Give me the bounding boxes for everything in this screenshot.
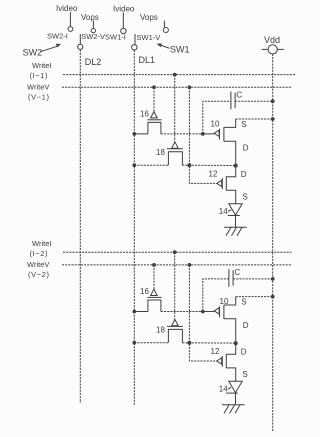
- transistor 18 channel: [168, 329, 182, 342]
- terminal SW2-I contact: [68, 27, 73, 32]
- svg-text:DL2: DL2: [85, 57, 102, 67]
- wire source of 10 to Vdd bus: [236, 118, 273, 120]
- ground hatch 2: [232, 227, 237, 236]
- svg-text:(V−2): (V−2): [28, 270, 50, 279]
- wire capacitor to Vdd bus: [235, 100, 273, 102]
- ground bar: [224, 226, 247, 228]
- wire Vops lead: [92, 21, 94, 29]
- wire WriteV row line: [62, 86, 292, 88]
- switch SW1 blade: [134, 34, 136, 45]
- wire DL1 to source of 18: [134, 342, 168, 344]
- svg-text:C: C: [236, 91, 242, 100]
- ground bar: [222, 404, 245, 406]
- transistor 16 gate bar: [147, 296, 161, 298]
- svg-text:S: S: [241, 297, 246, 306]
- wire drain of 16 to gate node: [161, 311, 203, 313]
- wire DL1 to source of 18: [134, 164, 168, 166]
- ground hatch 3: [237, 227, 242, 236]
- transistor 18 gate bar: [167, 148, 183, 150]
- junction gate-12 wire on WriteV: [188, 263, 192, 267]
- transistor 10 source lead: [224, 119, 236, 127]
- junction gate-18 on WriteI: [173, 73, 177, 77]
- wire Vdd bus: [272, 54, 274, 432]
- wire Ivideo lead: [69, 12, 71, 26]
- wire capacitor to Vdd bus: [233, 278, 273, 280]
- svg-text:14: 14: [219, 385, 228, 394]
- wire Ivideo lead: [122, 13, 124, 29]
- svg-text:12: 12: [211, 347, 220, 356]
- wire WriteI row line: [63, 74, 295, 76]
- LED 14 cathode bar: [226, 392, 238, 394]
- svg-text:16: 16: [140, 287, 149, 296]
- junction source wire on Vdd bus: [271, 295, 275, 299]
- transistor 12 drain lead: [226, 343, 235, 354]
- LED 14 triangle: [229, 381, 242, 392]
- transistor 10 channel: [223, 127, 225, 141]
- Vdd terminal right tick: [277, 48, 284, 50]
- svg-text:WriteV: WriteV: [27, 83, 49, 92]
- wire WriteV to gate of 12: [189, 265, 217, 361]
- svg-text:16: 16: [140, 109, 149, 118]
- transistor 12 source lead: [226, 190, 235, 203]
- svg-text:Vdd: Vdd: [264, 35, 280, 45]
- svg-text:WriteI: WriteI: [32, 61, 51, 70]
- junction node on 18 drain wire: [187, 341, 191, 345]
- wire gate node to capacitor: [203, 279, 229, 312]
- wire gate lead of transistor 18: [174, 252, 176, 319]
- transistor 10 gate bar: [219, 129, 221, 140]
- junction gate-12 wire on WriteV: [188, 85, 192, 89]
- wire WriteV row line: [62, 264, 292, 266]
- wire gate node to gate of 10: [203, 133, 215, 135]
- LED 14 triangle: [229, 204, 242, 215]
- svg-text:S: S: [242, 370, 247, 379]
- wire drain of 18 to node D: [182, 164, 235, 166]
- SW2 pointer arrowhead: [56, 44, 61, 48]
- transistor 12 drain lead: [226, 166, 235, 177]
- svg-text:SW2: SW2: [23, 48, 43, 58]
- transistor 18 gate contact: [172, 320, 179, 326]
- capacitor C right plate: [234, 93, 236, 109]
- svg-text:D: D: [243, 321, 249, 330]
- ground hatch 1: [224, 405, 229, 414]
- transistor 16 channel: [148, 122, 161, 133]
- wire data line DL1 bus: [133, 50, 135, 406]
- transistor 16 gate contact: [151, 112, 158, 118]
- wire gate lead of transistor 16: [153, 265, 155, 289]
- capacitor C left plate: [230, 92, 232, 110]
- transistor 16 gate bar: [147, 119, 161, 121]
- svg-text:Vops: Vops: [81, 13, 99, 22]
- junction gate node of 10: [201, 132, 205, 136]
- junction node D: [234, 341, 238, 345]
- switch SW2 pole: [78, 44, 83, 49]
- svg-text:SW1-V: SW1-V: [137, 33, 161, 42]
- svg-text:18: 18: [156, 148, 165, 157]
- svg-text:DL1: DL1: [139, 55, 156, 65]
- junction gate-16 on WriteV: [152, 263, 156, 267]
- transistor 18 gate bar: [167, 325, 183, 327]
- capacitor C left plate: [228, 269, 230, 287]
- svg-text:WriteV: WriteV: [27, 260, 49, 269]
- svg-text:SW2-I: SW2-I: [47, 31, 68, 40]
- switch SW1 pole: [132, 45, 137, 50]
- svg-text:WriteI: WriteI: [32, 239, 51, 248]
- ground hatch 2: [230, 405, 235, 414]
- transistor 10 drain lead: [224, 141, 236, 165]
- svg-text:D: D: [243, 144, 249, 153]
- svg-text:(I−1): (I−1): [30, 71, 49, 80]
- terminal SW1-I contact: [121, 28, 126, 33]
- wire gate node to capacitor: [203, 101, 231, 134]
- wire gate node to gate of 10: [203, 311, 215, 313]
- junction on DL1 (18 source): [132, 341, 136, 345]
- wire LED to ground: [235, 393, 237, 405]
- terminal SW2-V contact: [91, 28, 95, 32]
- transistor 12 gate bar: [221, 178, 223, 189]
- transistor 10 gate contact: [214, 308, 219, 314]
- svg-text:18: 18: [156, 325, 165, 334]
- svg-text:14: 14: [219, 207, 228, 216]
- junction on DL1 (16 source): [132, 310, 136, 314]
- wire gate lead of transistor 16: [153, 87, 155, 111]
- transistor 10 gate bar: [219, 306, 221, 317]
- svg-text:(V−1): (V−1): [28, 92, 50, 101]
- junction gate-18 on WriteI: [173, 250, 177, 254]
- svg-text:D: D: [241, 170, 247, 179]
- wire Vops lead: [163, 21, 165, 28]
- wire WriteV to gate of 12: [189, 87, 217, 183]
- junction capacitor on Vdd bus: [271, 277, 275, 281]
- wire DL1 to source of 16: [134, 311, 148, 313]
- svg-text:Ivideo: Ivideo: [56, 4, 78, 13]
- label 14 pointer tick: [228, 210, 231, 212]
- wire source of 10 to Vdd bus: [236, 296, 273, 298]
- junction gate-16 on WriteV: [152, 85, 156, 89]
- svg-text:S: S: [242, 192, 247, 201]
- wire data line DL2 bus: [79, 50, 81, 404]
- junction source wire on Vdd bus: [271, 117, 275, 121]
- transistor 12 channel: [225, 354, 227, 368]
- wire drain of 16 to gate node: [161, 133, 203, 135]
- transistor 10 drain lead: [224, 319, 236, 343]
- svg-text:D: D: [241, 348, 247, 357]
- svg-text:10: 10: [211, 120, 220, 129]
- transistor 12 source lead: [226, 368, 235, 381]
- svg-text:Ivideo: Ivideo: [113, 5, 135, 14]
- transistor 12 gate contact: [217, 358, 222, 364]
- svg-text:(I−2): (I−2): [30, 249, 49, 258]
- SW1 pointer arrowhead: [157, 44, 162, 48]
- junction node D: [234, 164, 238, 168]
- switch SW2 blade: [79, 34, 81, 44]
- ground hatch 3: [235, 405, 240, 414]
- wire WriteI row line: [63, 251, 292, 253]
- junction on DL1 (16 source): [132, 132, 136, 136]
- transistor 10 gate contact: [214, 130, 219, 136]
- transistor 12 gate contact: [217, 180, 222, 186]
- ground hatch 1: [226, 227, 231, 236]
- SW2 pointer line: [40, 46, 57, 52]
- transistor 10 source lead: [224, 297, 236, 305]
- LED 14 cathode bar: [228, 215, 240, 217]
- svg-text:S: S: [241, 120, 246, 129]
- transistor 16 gate contact: [151, 289, 158, 295]
- wire LED to ground: [235, 216, 237, 228]
- svg-text:SW1: SW1: [170, 45, 190, 55]
- transistor 12 gate bar: [221, 356, 223, 367]
- svg-text:SW1-I: SW1-I: [105, 33, 126, 42]
- label 14 pointer tick: [228, 387, 231, 389]
- terminal SW1-V contact: [163, 28, 168, 33]
- transistor 18 gate contact: [172, 142, 179, 148]
- Vdd terminal left tick: [262, 48, 269, 50]
- junction gate node of 10: [201, 310, 205, 314]
- svg-text:SW2-V: SW2-V: [81, 32, 105, 41]
- terminal Vdd: [268, 45, 277, 54]
- wire DL1 to source of 16: [134, 133, 148, 135]
- junction node on 18 drain wire: [187, 163, 191, 167]
- svg-text:C: C: [234, 268, 240, 277]
- svg-text:10: 10: [220, 297, 229, 306]
- junction capacitor on Vdd bus: [271, 99, 275, 103]
- capacitor C right plate: [232, 270, 234, 286]
- transistor 16 channel: [148, 300, 161, 312]
- wire drain of 18 to node D: [182, 342, 235, 344]
- transistor 18 channel: [168, 152, 182, 165]
- SW1 pointer line: [161, 45, 170, 48]
- svg-text:12: 12: [209, 170, 218, 179]
- transistor 10 channel: [223, 305, 225, 319]
- transistor 12 channel: [225, 176, 227, 190]
- svg-text:Vops: Vops: [140, 13, 158, 22]
- junction on DL1 (18 source): [132, 163, 136, 167]
- wire gate lead of transistor 18: [174, 75, 176, 142]
